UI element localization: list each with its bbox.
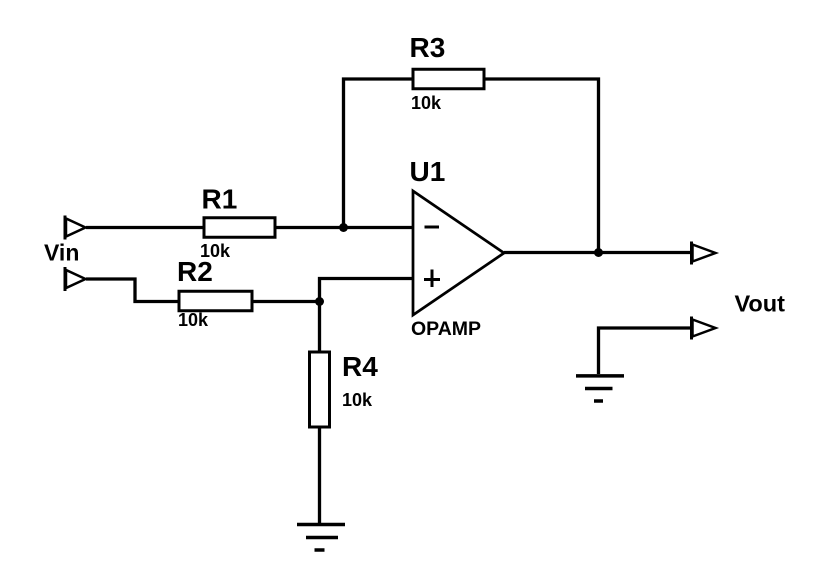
svg-text:R1: R1	[202, 184, 238, 215]
svg-text:10k: 10k	[411, 93, 442, 113]
svg-text:10k: 10k	[178, 310, 209, 330]
svg-text:OPAMP: OPAMP	[411, 318, 481, 340]
svg-text:U1: U1	[410, 156, 446, 187]
svg-text:R2: R2	[177, 256, 213, 287]
svg-text:Vin: Vin	[44, 240, 79, 266]
svg-text:10k: 10k	[342, 390, 373, 410]
svg-text:Vout: Vout	[735, 291, 786, 317]
svg-text:R4: R4	[342, 351, 378, 382]
svg-text:R3: R3	[410, 32, 446, 63]
